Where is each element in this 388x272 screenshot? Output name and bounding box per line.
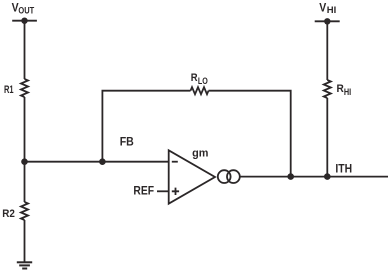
svg-text:FB: FB — [120, 137, 134, 149]
svg-text:R2: R2 — [2, 208, 15, 220]
svg-text:gm: gm — [192, 148, 209, 160]
svg-text:R: R — [337, 83, 344, 95]
svg-text:OUT: OUT — [18, 5, 34, 15]
svg-text:HI: HI — [344, 87, 351, 98]
svg-text:V: V — [319, 0, 326, 14]
svg-text:LO: LO — [198, 76, 208, 86]
svg-text:ITH: ITH — [335, 162, 352, 176]
svg-text:R1: R1 — [4, 84, 14, 96]
svg-text:REF: REF — [133, 184, 154, 198]
svg-text:R: R — [191, 72, 198, 84]
svg-text:HI: HI — [327, 5, 337, 15]
